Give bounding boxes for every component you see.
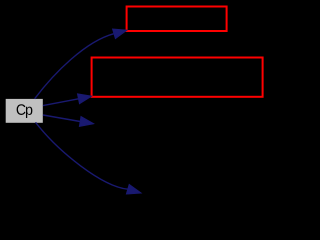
edge 1 arrowhead	[113, 29, 127, 39]
node box middle (red)	[92, 58, 263, 97]
edge 2 wire: Cp to middle box	[43, 99, 79, 106]
node Cp (grey filled box)	[6, 99, 43, 123]
node box top (red)	[127, 7, 227, 32]
label Cp	[17, 104, 26, 115]
edge 4 arrowhead	[126, 184, 141, 194]
edge 1 wire: Cp to top box (curved)	[35, 34, 114, 99]
edge 2 arrowhead	[78, 94, 92, 104]
edge 4 wire: Cp to bottom hidden node (curved)	[36, 122, 128, 189]
edge 3 arrowhead	[79, 117, 93, 127]
edge 3 wire: Cp to hidden node	[43, 115, 80, 122]
